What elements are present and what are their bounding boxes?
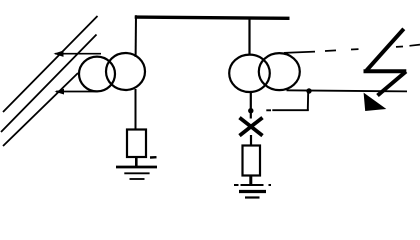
incoming line L2 (1, 35, 97, 133)
wire loop down (307, 91, 309, 110)
incoming line L1 (3, 16, 98, 112)
stray mark right of R1 (150, 156, 157, 159)
junction dot J1 (248, 108, 253, 113)
wire X to R2 (250, 135, 252, 146)
busbar (135, 17, 290, 18)
wire T1 to R1 (135, 89, 137, 130)
wire T2 secondary (287, 90, 408, 91)
lightning arrowhead (364, 93, 387, 111)
wire T2 to fault (250, 91, 252, 119)
junction dot J2 (306, 88, 311, 93)
transformer T2 (229, 53, 300, 92)
dashed line to lightning (284, 45, 420, 53)
wire bus to T2 (248, 19, 250, 56)
ground E2 (234, 185, 271, 198)
wire R1 to ground (135, 157, 138, 167)
wire loop left (272, 109, 309, 111)
lightning stroke (364, 29, 407, 96)
arrowhead B (55, 89, 65, 95)
transformer T1 (79, 53, 145, 91)
wire loop dash (266, 109, 271, 111)
wire bus to T1 (135, 15, 137, 57)
resistor R2 (243, 146, 261, 176)
incoming line L3 (3, 73, 78, 146)
wire stub B (56, 91, 97, 93)
ground E1 (116, 167, 157, 179)
fault mark X (240, 118, 263, 136)
resistor R1 (127, 130, 146, 158)
wire R2 to ground (249, 176, 252, 186)
wire stub A (55, 53, 101, 55)
arrowhead A (54, 51, 64, 57)
